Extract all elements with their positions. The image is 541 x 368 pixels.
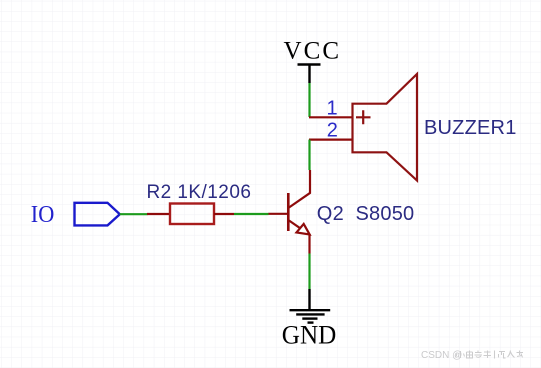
port IO (75, 203, 120, 226)
transistor Q2 (268, 170, 310, 254)
resistor R2 (147, 204, 234, 225)
buzzer BUZZER1 (353, 74, 418, 181)
svg-text:2: 2 (327, 119, 338, 141)
svg-text:Q2 S8050: Q2 S8050 (317, 203, 415, 225)
svg-text:R2 1K/1206: R2 1K/1206 (147, 182, 252, 203)
power symbol VCC (298, 65, 321, 84)
wire (308, 140, 310, 170)
svg-text:GND: GND (282, 320, 337, 349)
wire (234, 213, 269, 215)
svg-text:1: 1 (327, 97, 338, 119)
svg-text:VCC: VCC (284, 37, 340, 64)
svg-text:IO: IO (31, 202, 55, 228)
ground symbol GND (290, 289, 331, 323)
wire (308, 83, 310, 117)
wire (120, 213, 148, 215)
svg-text:BUZZER1: BUZZER1 (424, 117, 517, 139)
watermark (421, 350, 523, 361)
pin 2 of BUZZER1 (309, 139, 353, 141)
wire (308, 254, 310, 290)
pin 1 of BUZZER1 (309, 116, 353, 118)
